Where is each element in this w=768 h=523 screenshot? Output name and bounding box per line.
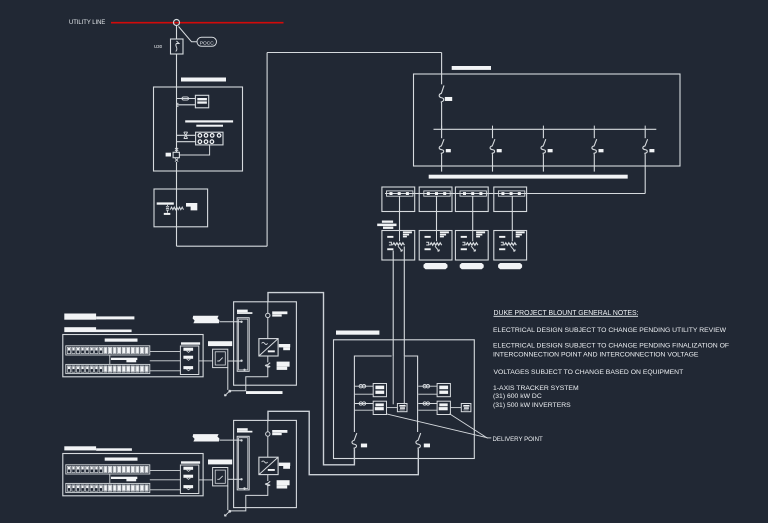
delivery breaker 1 xyxy=(352,433,357,449)
wire U30 to substation xyxy=(176,54,178,87)
dc disconnect 2 blade xyxy=(217,476,222,479)
skid 1 inverter AC symbol xyxy=(262,342,268,344)
combiner feed bus xyxy=(385,193,645,195)
INV3 dc bar xyxy=(461,236,467,238)
feeder 3 stub below box xyxy=(542,155,544,172)
redacted aux label 1 xyxy=(193,316,220,323)
meter line 2 xyxy=(177,104,196,106)
svg-text:U30: U30 xyxy=(154,44,163,49)
combiner box CB2 xyxy=(419,187,452,212)
redacted INV3 name plate xyxy=(460,263,484,269)
delivery breaker 2 xyxy=(416,433,421,449)
wire CB1 to inverter xyxy=(399,196,401,230)
combiner CB4 fuses xyxy=(501,192,504,195)
INV3 wire in xyxy=(472,231,474,242)
metering inner box right edge xyxy=(405,356,418,432)
dc disconnect box 2 inner xyxy=(215,470,225,483)
redacted recombiner 2 bar 2 xyxy=(111,477,137,479)
wire bottom horizontal run xyxy=(177,245,268,247)
recombiner 1 fuse 3 xyxy=(183,366,193,369)
skid 1 fuse label bars xyxy=(272,311,287,314)
metering left wire 2b xyxy=(354,409,373,411)
feeder breaker 2 xyxy=(490,139,495,154)
metering left CT 2 xyxy=(359,402,362,405)
inverter skid 2 box xyxy=(234,420,297,507)
INV1 choke xyxy=(389,242,392,245)
skid 1 dc out wire xyxy=(230,368,268,391)
recombiner 2 out wire xyxy=(199,479,213,481)
redacted fuse box 1 bar xyxy=(181,342,200,344)
redacted bus label bar 1 xyxy=(185,120,233,122)
skid 2 inverter DC symbol xyxy=(268,469,275,471)
meter M1 bars xyxy=(197,98,207,100)
redacted INV1 label bars xyxy=(382,221,393,223)
INV1 wire in xyxy=(399,231,401,242)
redacted collector label bar xyxy=(452,66,491,70)
skid 2 inverter label bars xyxy=(279,463,290,466)
redacted breaker box label 2 xyxy=(208,460,232,465)
svg-text:VOLTAGES SUBJECT TO CHANGE BAS: VOLTAGES SUBJECT TO CHANGE BASED ON EQUI… xyxy=(494,369,684,376)
dc disconnect 1 ground drop xyxy=(227,368,229,390)
skid 1 dc breaker xyxy=(265,363,270,368)
redacted feeder text 1a xyxy=(64,314,96,320)
INV1 dc bar 2 xyxy=(387,248,393,250)
switch U30 symbol xyxy=(176,41,179,52)
grounding transformer box B xyxy=(154,189,208,227)
recombiner 2 box xyxy=(63,454,203,496)
skid 1 aux tap junction 1 xyxy=(240,321,242,323)
skid 1 dc label bars xyxy=(277,362,290,367)
skid 2 aux panel inner xyxy=(239,438,248,489)
feeder breaker 3 tick xyxy=(542,126,544,130)
redacted INV2 name plate xyxy=(424,263,448,269)
leader tick xyxy=(488,437,492,439)
wire delivery breaker1 to skid1 run xyxy=(268,293,354,465)
combiner CB1 terminal strip xyxy=(387,191,413,196)
feeder breaker 1 xyxy=(439,139,444,154)
recombiner 1 strip link xyxy=(109,355,111,365)
combiner CB2 fuses xyxy=(427,192,430,195)
skid 1 wire inverter to breaker xyxy=(267,356,269,362)
skid 1 ground arrow xyxy=(225,392,230,396)
main wire through box A xyxy=(176,87,178,152)
feeder breaker 2 drop wire xyxy=(492,129,494,138)
skid 1 aux bottom junction xyxy=(243,369,245,371)
recombiner 2 wire 2 xyxy=(150,479,181,481)
recombiner 1 out wire xyxy=(199,360,213,362)
neutral reactor coil xyxy=(170,207,183,210)
svg-text:ELECTRICAL DESIGN SUBJECT TO C: ELECTRICAL DESIGN SUBJECT TO CHANGE PEND… xyxy=(493,343,729,350)
recombiner 2 fuse 3 xyxy=(183,485,193,488)
metering right wire 1 xyxy=(418,385,437,387)
feeder 4 stub below box xyxy=(593,155,595,172)
skid 1 fuse circle xyxy=(266,313,270,317)
INV1 label bars xyxy=(403,231,412,233)
recombiner 1 wire 2 xyxy=(150,360,181,362)
redacted feeder label bar xyxy=(429,175,628,179)
recombiner 2 wire 1 xyxy=(150,469,181,471)
INV3 label bars xyxy=(476,231,485,233)
wire to relay panel xyxy=(177,134,196,136)
redacted feeder text 1c xyxy=(64,327,96,329)
redacted recombiner 2 bar xyxy=(105,458,138,461)
INV3 choke xyxy=(462,242,465,245)
dc wire into skid 1 xyxy=(228,360,242,362)
recombiner 2 strip link xyxy=(109,474,111,484)
recombiner 1 fuse 2 xyxy=(183,356,193,359)
combiner CB1 fuses xyxy=(390,192,393,195)
skid 1 inverter label bars xyxy=(279,344,290,347)
INV2 dc bar 2 xyxy=(425,248,431,250)
feeder breaker 4 xyxy=(592,139,597,154)
dc disconnect box 2 outer xyxy=(213,468,228,486)
feeder 2 stub below box xyxy=(492,155,494,172)
dc disconnect box 1 inner xyxy=(215,352,225,365)
skid 1 inverter U1 box xyxy=(259,339,278,356)
redacted breaker box label 1 xyxy=(208,341,232,346)
metering left meter 2 xyxy=(373,401,386,414)
redacted label bar (substation name) xyxy=(181,78,226,82)
ground bus bar xyxy=(157,202,174,204)
feeder breaker 5 xyxy=(643,139,648,154)
combiner box CB4 xyxy=(494,187,527,212)
collector switchgear box C xyxy=(414,74,681,166)
redacted bus label bar 2 xyxy=(196,125,223,127)
combiner CB3 fuses xyxy=(463,192,466,195)
feeder 1 stub below box xyxy=(441,155,443,172)
svg-text:UTILITY LINE: UTILITY LINE xyxy=(69,19,105,27)
wire into metering L xyxy=(392,356,394,404)
skid 2 inverter AC symbol xyxy=(262,461,268,463)
relay panel U2 box xyxy=(196,132,223,145)
feeder breaker 5 tick xyxy=(644,126,646,130)
wire CB3 to inverter xyxy=(472,196,474,230)
wire into metering R xyxy=(403,356,405,404)
redacted recombiner 1 bar 2 xyxy=(111,358,137,360)
metering left test switch xyxy=(397,404,407,412)
recombiner 1 strip 2 fuses xyxy=(67,366,70,372)
dc wire into skid 2 xyxy=(228,478,242,480)
svg-text:ELECTRICAL DESIGN SUBJECT TO C: ELECTRICAL DESIGN SUBJECT TO CHANGE PEND… xyxy=(493,327,727,334)
delivery point enclosure xyxy=(334,340,475,459)
INV4 dc bar 2 xyxy=(499,248,505,250)
INV4 dc bar xyxy=(499,236,505,238)
POCC label bubble xyxy=(197,37,217,46)
ground leg coil xyxy=(166,205,169,213)
INV4 wire in xyxy=(511,231,513,242)
dc disconnect 2 ground drop xyxy=(227,486,229,510)
dc disconnect 1 blade xyxy=(217,358,222,361)
skid 1 ac wire in xyxy=(267,302,269,313)
recombiner 2 fuse box xyxy=(180,465,198,494)
inverter box INV1 xyxy=(382,231,415,261)
skid 2 dc breaker xyxy=(265,481,270,486)
svg-text:(31) 500 kW INVERTERS: (31) 500 kW INVERTERS xyxy=(493,402,571,409)
inverter box INV4 xyxy=(494,231,527,261)
redacted feeder text 1b xyxy=(96,316,134,319)
INV4 choke xyxy=(501,242,504,245)
metering right CT 1 xyxy=(423,385,426,388)
skid 2 dc out wire xyxy=(230,486,268,511)
skid 2 ground arrow xyxy=(225,512,230,516)
recombiner 2 strip 1 xyxy=(66,465,150,474)
disconnect switch S1 box xyxy=(173,152,179,157)
recombiner 1 fuse 1 xyxy=(183,348,193,351)
skid 2 ac wire in xyxy=(267,420,269,431)
skid 2 label bars xyxy=(237,428,248,431)
svg-text:1-AXIS TRACKER SYSTEM: 1-AXIS TRACKER SYSTEM xyxy=(493,385,579,392)
dc disconnect box 1 outer xyxy=(213,349,228,367)
meter M1 box xyxy=(195,95,208,108)
relay panel indicator lamps xyxy=(198,134,202,138)
metering left wire 1 xyxy=(354,385,373,387)
metering left meter 1 xyxy=(373,384,386,397)
recombiner 2 fuse 1 xyxy=(183,467,193,470)
INV1 switch arrow xyxy=(398,246,402,251)
skid 2 fuse circle xyxy=(266,432,270,436)
leader wire to POCC xyxy=(179,27,198,42)
wire CB2 to inverter xyxy=(436,196,438,230)
skid 1 aux panel inner xyxy=(239,319,248,370)
INV2 wire in xyxy=(436,231,438,242)
skid 2 aux tap junction 1 xyxy=(240,439,242,441)
redacted feeder text 1d xyxy=(64,330,131,333)
metering right CT 2 xyxy=(423,402,426,405)
INV2 switch arrow xyxy=(435,246,439,251)
substation enclosure box A xyxy=(154,87,243,171)
inverter box INV2 xyxy=(419,231,452,261)
feeder breaker 5 drop wire xyxy=(644,129,646,138)
svg-text:DUKE PROJECT BLOUNT GENERAL NO: DUKE PROJECT BLOUNT GENERAL NOTES: xyxy=(494,310,639,317)
wire INV1 phase A down xyxy=(392,251,394,357)
skid 2 wire to inverter xyxy=(267,436,269,457)
wire CB4 to inverter xyxy=(511,196,513,230)
skid 2 wire inverter to breaker xyxy=(267,475,269,481)
skid 1 aux tap junction 2 xyxy=(240,360,242,362)
recombiner 1 box xyxy=(63,335,203,377)
wire riser xyxy=(266,53,268,247)
combiner CB3 terminal strip xyxy=(460,191,486,196)
combiner box CB3 xyxy=(455,187,488,212)
redacted skid 1 name bar xyxy=(246,391,283,394)
main breaker 52M xyxy=(439,85,444,103)
metering left wire 2 xyxy=(354,403,373,405)
metering right wire 1b xyxy=(418,393,437,395)
feeder breaker 3 drop wire xyxy=(542,129,544,138)
redacted fuse box 2 bar xyxy=(181,461,200,463)
redacted recombiner 1 bar xyxy=(105,339,138,342)
recombiner 2 strip 2 xyxy=(66,483,150,492)
recombiner 2 strip 2 fuses xyxy=(67,485,70,491)
feeder breaker 4 drop wire xyxy=(593,129,595,138)
skid 2 fuse label bars xyxy=(272,430,287,433)
node: interconnection point circle xyxy=(174,20,180,26)
recombiner 1 fuse box xyxy=(180,346,198,375)
redacted INV4 name plate xyxy=(498,263,522,269)
skid 1 label bars xyxy=(237,310,248,313)
svg-text:(31) 600 kW DC: (31) 600 kW DC xyxy=(493,393,542,400)
skid 1 inverter diagonal xyxy=(259,339,278,356)
feeder breaker 1 tick xyxy=(441,126,443,130)
metering left wire 3 xyxy=(387,407,398,409)
INV4 switch arrow xyxy=(511,246,515,251)
metering inner box top edge xyxy=(354,356,391,432)
switch U30 box xyxy=(171,39,184,54)
wire breaker to bus xyxy=(441,104,443,130)
skid 2 inverter diagonal xyxy=(259,457,278,474)
leader line 2 xyxy=(450,414,488,438)
wire drop into collector box xyxy=(441,53,443,85)
inverter skid 1 box xyxy=(234,302,297,385)
inverter box INV3 xyxy=(455,231,488,261)
redacted transformer label xyxy=(186,203,197,210)
INV2 dc bar xyxy=(425,236,431,238)
skid 1 wire to inverter xyxy=(267,318,269,339)
metering right meter 2 xyxy=(437,401,450,414)
recombiner 2 fuse 2 xyxy=(183,475,193,478)
INV1 dc bar xyxy=(387,236,393,238)
svg-text:DELIVERY POINT: DELIVERY POINT xyxy=(493,436,544,443)
fuse marks above disconnect xyxy=(175,148,178,151)
metering left wire 1b xyxy=(354,393,373,395)
redacted disconnect label xyxy=(166,153,171,157)
recombiner 1 strip 1 fuses xyxy=(67,347,70,353)
INV3 dc bar 2 xyxy=(461,248,467,250)
wire disconnect to box B xyxy=(176,162,178,189)
skid 2 aux panel outer xyxy=(237,436,249,490)
recombiner 2 strip 1 fuses xyxy=(67,466,70,472)
metering right wire 2b xyxy=(418,409,437,411)
INV2 label bars xyxy=(440,231,449,233)
leader line 1 xyxy=(386,414,488,438)
metering right test switch xyxy=(461,404,471,412)
recombiner 1 strip 2 xyxy=(66,364,150,373)
feeder breaker 3 xyxy=(541,139,546,154)
aux wire 2 xyxy=(220,439,242,441)
redacted feeder text 2a xyxy=(64,446,96,450)
wire delivery breaker2 to skid2 run xyxy=(268,411,418,474)
metering right wire 2 xyxy=(418,403,437,405)
skid 2 dc label bars xyxy=(277,480,290,485)
recombiner 1 wire 1 xyxy=(150,350,181,352)
collector bus xyxy=(434,128,657,130)
skid 2 ground junction xyxy=(228,510,231,513)
wire top horizontal run xyxy=(267,52,442,54)
ground bar xyxy=(164,213,171,215)
fuse marks below disconnect xyxy=(175,158,178,161)
feeder breaker 1 drop wire xyxy=(441,129,443,138)
combiner CB2 terminal strip xyxy=(424,191,450,196)
INV3 switch arrow xyxy=(471,246,475,251)
skid 1 aux panel outer xyxy=(237,318,249,372)
redacted aux label 2 xyxy=(193,434,220,441)
skid 1 inverter DC symbol xyxy=(268,350,275,352)
combiner CB4 terminal strip xyxy=(498,191,524,196)
metering right meter 1 xyxy=(437,384,450,397)
skid 2 inverter U2 box xyxy=(259,457,278,474)
recombiner 1 strip 1 xyxy=(66,346,150,355)
svg-text:INTERCONNECTION POINT AND INTE: INTERCONNECTION POINT AND INTERCONNECTIO… xyxy=(493,352,699,359)
wire INV1 phase B down xyxy=(403,247,405,357)
feeder 5 wire down xyxy=(644,155,646,194)
recombiner 1 wire 3 xyxy=(150,370,181,372)
redacted feeder text 2b xyxy=(96,448,132,451)
feeder breaker 4 tick xyxy=(593,126,595,130)
relay panel wire 2 xyxy=(177,141,196,143)
skid 2 aux tap junction 2 xyxy=(240,478,242,480)
metering left CT 1 xyxy=(359,385,362,388)
skid 1 ground junction xyxy=(228,390,231,393)
main wire through box B xyxy=(176,189,178,227)
recombiner 2 wire 3 xyxy=(150,489,181,491)
aux wire 1 xyxy=(220,321,242,323)
combiner box CB1 xyxy=(382,187,415,212)
wire circle to switch U30 xyxy=(176,26,178,40)
skid 2 aux bottom junction xyxy=(243,487,245,489)
redacted delivery label bar xyxy=(336,331,379,335)
wire relay panel to disconnect xyxy=(179,145,209,155)
CT symbol on relay line xyxy=(184,132,188,138)
feeder breaker 2 tick xyxy=(492,126,494,130)
utility line (red) xyxy=(111,22,284,24)
INV4 label bars xyxy=(516,231,525,233)
svg-text:POCC: POCC xyxy=(200,40,214,46)
metering right wire 3 xyxy=(450,407,461,409)
CT pill on meter line xyxy=(177,98,196,100)
wire box B to corner xyxy=(176,227,178,246)
INV2 choke xyxy=(426,242,429,245)
